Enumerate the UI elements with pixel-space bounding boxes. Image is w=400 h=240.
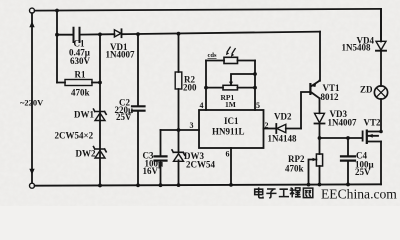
char zi <box>266 189 276 198</box>
svg-text:8012: 8012 <box>321 92 340 102</box>
node VT2 drain junction <box>379 130 383 134</box>
IC U1 HN911L box <box>199 110 264 148</box>
lamp ZD <box>374 86 387 99</box>
wire pin4 column <box>205 61 207 111</box>
terminal bottom-left <box>30 183 35 188</box>
char gong <box>279 189 289 196</box>
zener DW2 <box>94 147 107 158</box>
node C4 bottom rail <box>346 183 350 187</box>
node pin3/R2/DW3 junction <box>177 128 181 132</box>
wire rail2 right of VD1 <box>122 32 320 35</box>
wire VT2 to rail <box>380 142 382 185</box>
char dian <box>255 187 263 198</box>
char wang <box>303 188 312 198</box>
node DW2 bottom rail <box>98 184 102 188</box>
svg-text:cds: cds <box>208 52 218 59</box>
node C2 bottom <box>136 183 140 187</box>
svg-text:VD2: VD2 <box>274 112 292 122</box>
wire VT1 emitter up <box>319 32 322 81</box>
wire lamp to VD4 <box>380 51 382 86</box>
svg-text:R1: R1 <box>75 70 86 80</box>
potentiometer RP2 <box>319 138 321 185</box>
diode VD1 <box>114 30 121 37</box>
wire gate <box>320 137 362 139</box>
zener DW1 <box>94 109 107 120</box>
diode VD2 <box>275 124 277 133</box>
svg-text:630V: 630V <box>70 56 91 66</box>
wire DW column <box>99 34 101 185</box>
terminal top-left <box>30 8 35 13</box>
diode VD4 <box>376 41 386 50</box>
wire VT1 collector down <box>319 98 321 113</box>
svg-text:~220V: ~220V <box>20 98 44 108</box>
zener DW3 <box>178 130 180 185</box>
node RP2 wiper rail <box>307 183 311 187</box>
svg-text:ZD: ZD <box>360 85 373 95</box>
svg-text:2CW54: 2CW54 <box>186 160 215 170</box>
wire pin5 column <box>254 61 256 111</box>
svg-text:3: 3 <box>190 121 194 130</box>
potentiometer RP1 <box>223 85 238 90</box>
svg-text:VT2: VT2 <box>364 118 382 128</box>
label watermark CJK 电子工程网 <box>255 187 313 198</box>
node RP1 right junction <box>253 86 257 90</box>
node AC arrows <box>30 23 34 174</box>
svg-text:25V: 25V <box>116 112 132 122</box>
node R1 right junction <box>98 81 102 85</box>
node rail2 C1 junction <box>98 32 102 36</box>
transistor VT2 mosfet <box>362 131 364 142</box>
wire pin2 <box>264 128 277 130</box>
photoresistor cds <box>206 60 255 62</box>
node wiper junction <box>253 72 257 76</box>
node VD3 bottom junction <box>318 136 322 140</box>
wire C1 left drop <box>56 11 58 83</box>
svg-text:5: 5 <box>256 101 260 110</box>
node RP1 left junction <box>204 86 208 90</box>
node C4 top junction <box>346 136 350 140</box>
node DW3 bottom rail <box>177 183 181 187</box>
wire top rail <box>35 9 381 11</box>
svg-text:HN911L: HN911L <box>212 127 245 137</box>
svg-text:1M: 1M <box>225 100 236 109</box>
capacitor C2 <box>137 34 139 185</box>
resistor R1 <box>57 82 100 84</box>
node light arrows <box>227 47 235 53</box>
svg-text:16V: 16V <box>143 166 159 176</box>
svg-text:2: 2 <box>265 121 269 130</box>
char cheng <box>290 188 301 198</box>
svg-text:EEChina.com: EEChina.com <box>321 187 397 202</box>
resistor R2 <box>178 34 180 130</box>
svg-text:470k: 470k <box>285 164 304 174</box>
node RP2 bottom rail <box>318 183 322 187</box>
svg-text:2CW54×2: 2CW54×2 <box>55 131 94 141</box>
capacitor C1 <box>57 33 114 36</box>
svg-text:4: 4 <box>200 101 204 110</box>
svg-text:470k: 470k <box>71 88 90 98</box>
svg-text:1N5408: 1N5408 <box>342 43 371 53</box>
wire pin3 <box>161 129 200 131</box>
svg-text:IC1: IC1 <box>224 116 239 126</box>
svg-text:6: 6 <box>226 150 230 159</box>
svg-text:25V: 25V <box>355 167 371 177</box>
transistor VT1 <box>309 83 311 95</box>
wire right vertical top <box>380 9 382 42</box>
wire RP1 wiper <box>231 74 255 84</box>
svg-text:1N4007: 1N4007 <box>328 118 357 128</box>
node pin6 bottom rail <box>229 183 233 187</box>
node C3 bottom <box>159 183 163 187</box>
wire AC source line <box>31 13 33 183</box>
wire VD2 to base <box>301 92 310 129</box>
watermark <box>255 187 398 202</box>
wire pin6 <box>230 148 232 185</box>
wire bottom rail <box>35 184 381 185</box>
node top junction <box>55 9 59 13</box>
node R2 top junction <box>177 32 181 36</box>
svg-text:200: 200 <box>183 83 197 93</box>
svg-text:1N4148: 1N4148 <box>268 134 297 144</box>
svg-text:DW2: DW2 <box>76 149 96 159</box>
svg-text:1N4007: 1N4007 <box>106 50 135 60</box>
node C2 top junction <box>136 32 140 36</box>
capacitor C3 <box>160 130 162 185</box>
svg-text:DW1: DW1 <box>74 110 94 120</box>
capacitor C4 <box>347 138 349 184</box>
wire VT2 drain up to lamp <box>380 99 382 132</box>
diode VD3 <box>315 113 325 122</box>
svg-text:RP2: RP2 <box>288 154 305 164</box>
node C1 left junction <box>55 33 59 37</box>
